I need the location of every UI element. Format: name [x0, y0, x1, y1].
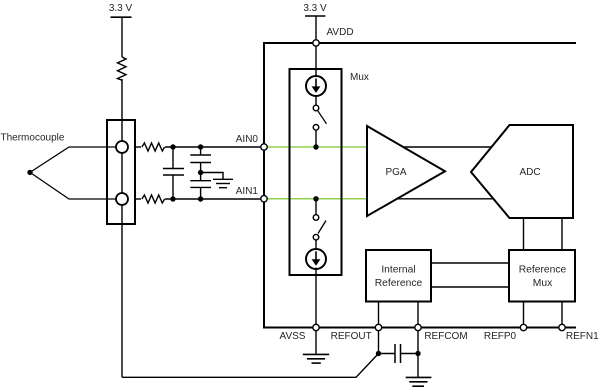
svg-text:REFCOM: REFCOM	[424, 331, 467, 342]
node C2 top	[198, 144, 203, 149]
node REFOUT cap	[376, 351, 381, 356]
terminal REFCOM	[415, 324, 421, 330]
wire midpoint to ground	[201, 173, 223, 180]
svg-text:3.3 V: 3.3 V	[303, 3, 327, 14]
svg-text:Internal: Internal	[381, 265, 415, 276]
wire ADC to reference mux right	[561, 218, 563, 250]
switch S1	[313, 105, 326, 130]
terminal AVDD	[313, 40, 319, 46]
resistor R2 (AIN0 filter)	[142, 143, 165, 151]
wire thermocouple leg top	[30, 147, 122, 172]
signal line PGA to ADC top	[398, 146, 497, 148]
svg-text:Reference: Reference	[519, 265, 567, 276]
node thermocouple junction	[27, 170, 32, 175]
wire ADC to reference mux left	[523, 218, 525, 250]
green wire AIN1 to PGA	[267, 198, 367, 200]
svg-text:REFOUT: REFOUT	[331, 331, 372, 342]
node AIN0 mux	[313, 144, 318, 149]
current source I1	[306, 76, 326, 96]
resistor R3 (AIN1 filter)	[142, 195, 165, 203]
reference mux block	[509, 250, 575, 302]
svg-text:AVSS: AVSS	[280, 331, 306, 342]
wire AVDD	[315, 16, 317, 77]
wire REFOUT down	[378, 331, 380, 354]
terminal REFOUT	[375, 324, 381, 330]
node C1 top	[170, 144, 175, 149]
wire REFCOM to ground	[417, 331, 419, 378]
node AIN1 mux	[313, 196, 318, 201]
wire R3 to AIN1 terminal	[165, 198, 264, 200]
terminal AVSS	[313, 324, 319, 330]
wire thermocouple leg bottom	[30, 172, 122, 199]
node REFCOM cap	[415, 351, 420, 356]
wire bias vertical through connector	[121, 79, 123, 377]
wire S2 to current source I2	[315, 240, 317, 249]
svg-text:Reference: Reference	[375, 278, 423, 289]
svg-text:3.3 V: 3.3 V	[109, 3, 133, 14]
wire I2 to AVSS	[315, 268, 317, 325]
wire bias return bottom	[122, 354, 379, 378]
node C3 bottom	[198, 196, 203, 201]
wire supply to resistor	[121, 17, 123, 57]
signal line PGA to ADC bottom	[396, 198, 497, 200]
IC outline (chip boundary, open on right)	[264, 43, 576, 328]
svg-text:Mux: Mux	[533, 278, 553, 289]
op-amp PGA	[367, 126, 445, 216]
wire reference mux to REFN1	[561, 302, 563, 325]
terminal AIN1	[261, 196, 267, 202]
current source I2	[306, 249, 326, 269]
svg-text:AIN0: AIN0	[236, 134, 259, 145]
wire internal reference to reference mux bottom	[431, 286, 509, 288]
supply 3.3V (left) bar	[111, 16, 132, 18]
ground (filter)	[213, 179, 233, 187]
wire internal reference to reference mux top	[431, 262, 509, 264]
terminal AIN0	[261, 144, 267, 150]
switch S2	[313, 215, 326, 240]
wire R2 to AIN0 terminal	[165, 146, 264, 148]
ground REFCOM	[406, 377, 432, 386]
svg-text:PGA: PGA	[385, 167, 406, 178]
ADC block	[471, 125, 573, 218]
svg-text:AVDD: AVDD	[327, 27, 354, 38]
svg-text:REFP0: REFP0	[484, 331, 517, 342]
capacitor C2 (AIN0 to gnd)	[190, 147, 211, 173]
green wire AIN0 to PGA	[267, 146, 367, 148]
wire connector to R2	[135, 146, 141, 148]
wire I1 to switch S1	[315, 95, 317, 105]
wire internal reference to REFOUT	[378, 302, 380, 325]
node C1 bottom	[170, 196, 175, 201]
wire internal reference to REFCOM	[417, 302, 419, 325]
wire connector to R3	[135, 198, 141, 200]
supply 3.3V (right) bar	[305, 15, 325, 17]
wire S1 to AIN0 line	[315, 130, 317, 147]
wire AIN1 line to switch S2	[315, 199, 317, 215]
capacitor C1 differential	[163, 147, 184, 199]
wire reference mux to REFP0	[523, 302, 525, 325]
internal reference block	[366, 250, 431, 302]
terminal REFP0	[520, 324, 526, 330]
svg-text:Mux: Mux	[350, 72, 369, 83]
svg-text:Thermocouple: Thermocouple	[1, 132, 65, 143]
capacitor C3 (AIN1 to gnd)	[190, 173, 211, 200]
ground AVSS	[303, 331, 329, 363]
svg-text:ADC: ADC	[519, 167, 540, 178]
connector J1 block	[107, 120, 135, 224]
connector terminal top	[116, 141, 128, 153]
node C2/C3 midpoint	[198, 170, 203, 175]
capacitor C4 reference bypass	[379, 344, 419, 363]
resistor R1 bias pull-up	[118, 57, 127, 80]
connector terminal bottom	[116, 193, 128, 205]
mux box	[290, 69, 342, 275]
svg-text:AIN1: AIN1	[236, 186, 259, 197]
svg-text:REFN1: REFN1	[566, 331, 599, 342]
terminal REFN1	[559, 324, 565, 330]
